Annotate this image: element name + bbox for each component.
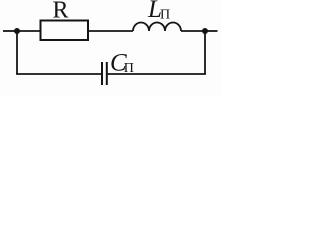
capacitor C_П left plate bbox=[101, 62, 103, 85]
svg-text:П: П bbox=[160, 7, 170, 22]
svg-text:R: R bbox=[53, 0, 69, 24]
wire resistor to inductor bbox=[88, 30, 133, 32]
wire node A to resistor bbox=[17, 30, 40, 32]
inductor L_П bbox=[133, 23, 181, 32]
capacitor C_П right plate bbox=[106, 62, 108, 85]
wire left terminal stub bbox=[3, 30, 17, 32]
node B (right junction dot) bbox=[202, 28, 208, 34]
wire inductor to node B bbox=[181, 30, 205, 32]
wire right terminal stub bbox=[205, 30, 218, 32]
wire left vertical branch bbox=[16, 31, 18, 74]
wire right vertical branch bbox=[204, 31, 206, 74]
node A (left junction dot) bbox=[14, 28, 20, 34]
wire capacitor to bottom right bbox=[107, 73, 206, 75]
wire bottom left to capacitor bbox=[16, 73, 102, 75]
resistor R bbox=[41, 21, 89, 41]
